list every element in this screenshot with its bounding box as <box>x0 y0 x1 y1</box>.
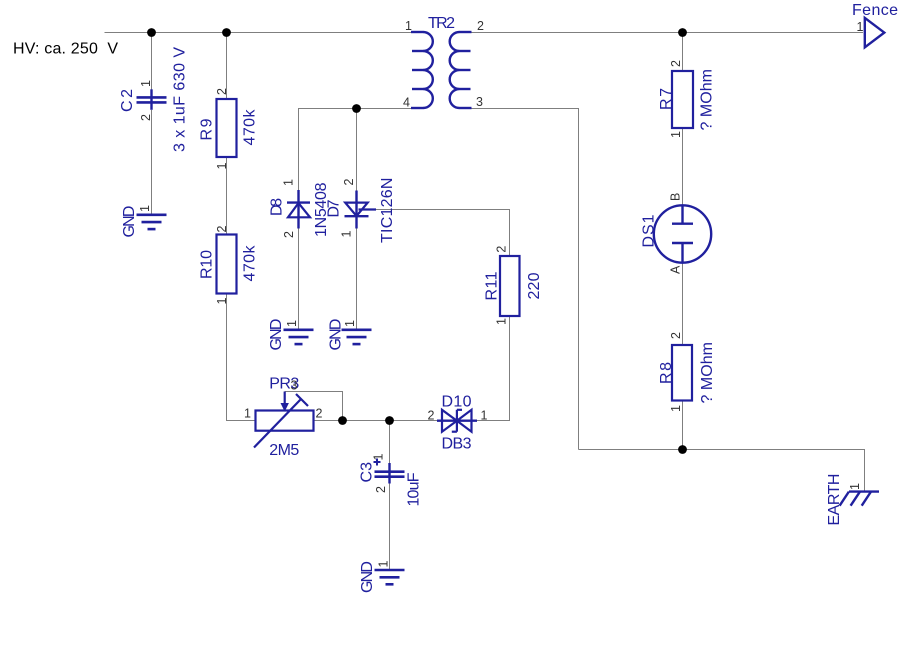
svg-text:1: 1 <box>244 407 251 421</box>
svg-text:? MOhm: ? MOhm <box>699 342 716 404</box>
svg-text:D10: D10 <box>442 394 472 411</box>
svg-text:A: A <box>669 265 683 274</box>
svg-text:470k: 470k <box>241 245 258 282</box>
svg-text:D8: D8 <box>268 198 285 216</box>
svg-text:3: 3 <box>291 379 298 393</box>
svg-text:1: 1 <box>139 80 153 87</box>
svg-text:R9: R9 <box>199 118 216 140</box>
svg-text:R7: R7 <box>658 88 675 110</box>
svg-text:1: 1 <box>282 179 296 186</box>
svg-text:10uF: 10uF <box>406 472 423 506</box>
svg-text:2: 2 <box>139 114 153 121</box>
svg-text:2: 2 <box>477 19 484 33</box>
svg-text:1: 1 <box>848 483 862 490</box>
svg-text:3 x 1uF 630 V: 3 x 1uF 630 V <box>171 47 188 152</box>
svg-text:D7: D7 <box>326 199 343 217</box>
svg-text:1: 1 <box>481 409 488 423</box>
svg-text:1: 1 <box>285 320 299 327</box>
svg-text:2: 2 <box>215 88 229 95</box>
svg-text:1: 1 <box>340 231 354 238</box>
svg-text:2: 2 <box>316 407 323 421</box>
svg-text:1: 1 <box>377 561 391 568</box>
svg-text:EARTH: EARTH <box>826 474 843 526</box>
svg-text:2: 2 <box>428 409 435 423</box>
svg-text:2: 2 <box>215 226 229 233</box>
svg-text:1: 1 <box>215 163 229 170</box>
svg-text:GND: GND <box>268 319 285 351</box>
svg-text:HV: ca. 250 V: HV: ca. 250 V <box>13 41 118 58</box>
svg-text:GND: GND <box>359 561 376 593</box>
svg-text:TR2: TR2 <box>428 15 455 32</box>
svg-text:R8: R8 <box>658 362 675 384</box>
svg-text:1: 1 <box>215 298 229 305</box>
svg-text:TIC126N: TIC126N <box>379 178 396 244</box>
svg-text:3: 3 <box>476 95 483 109</box>
svg-text:1: 1 <box>372 454 386 461</box>
svg-text:C3: C3 <box>359 462 376 483</box>
svg-text:C2: C2 <box>119 89 136 112</box>
svg-text:DS1: DS1 <box>641 214 658 247</box>
svg-text:2M5: 2M5 <box>269 442 299 459</box>
svg-text:1: 1 <box>669 131 683 138</box>
svg-text:2: 2 <box>669 332 683 339</box>
svg-text:2: 2 <box>495 246 509 253</box>
svg-text:4: 4 <box>403 96 410 110</box>
svg-text:R11: R11 <box>484 271 501 300</box>
svg-text:R10: R10 <box>199 250 216 279</box>
svg-text:B: B <box>669 193 683 201</box>
svg-text:2: 2 <box>282 231 296 238</box>
svg-text:? MOhm: ? MOhm <box>699 69 716 131</box>
svg-text:GND: GND <box>327 319 344 351</box>
svg-text:1: 1 <box>495 318 509 325</box>
svg-text:1: 1 <box>405 19 412 33</box>
svg-text:2: 2 <box>669 60 683 67</box>
svg-text:DB3: DB3 <box>442 436 472 453</box>
svg-text:1: 1 <box>857 20 864 34</box>
svg-text:2: 2 <box>342 179 356 186</box>
svg-text:Fence: Fence <box>852 2 898 19</box>
svg-text:GND: GND <box>121 206 138 238</box>
svg-text:1: 1 <box>138 205 152 212</box>
svg-text:2: 2 <box>374 486 388 493</box>
svg-text:1: 1 <box>669 405 683 412</box>
svg-text:470k: 470k <box>241 109 258 146</box>
svg-text:220: 220 <box>526 272 543 299</box>
svg-text:1: 1 <box>343 320 357 327</box>
